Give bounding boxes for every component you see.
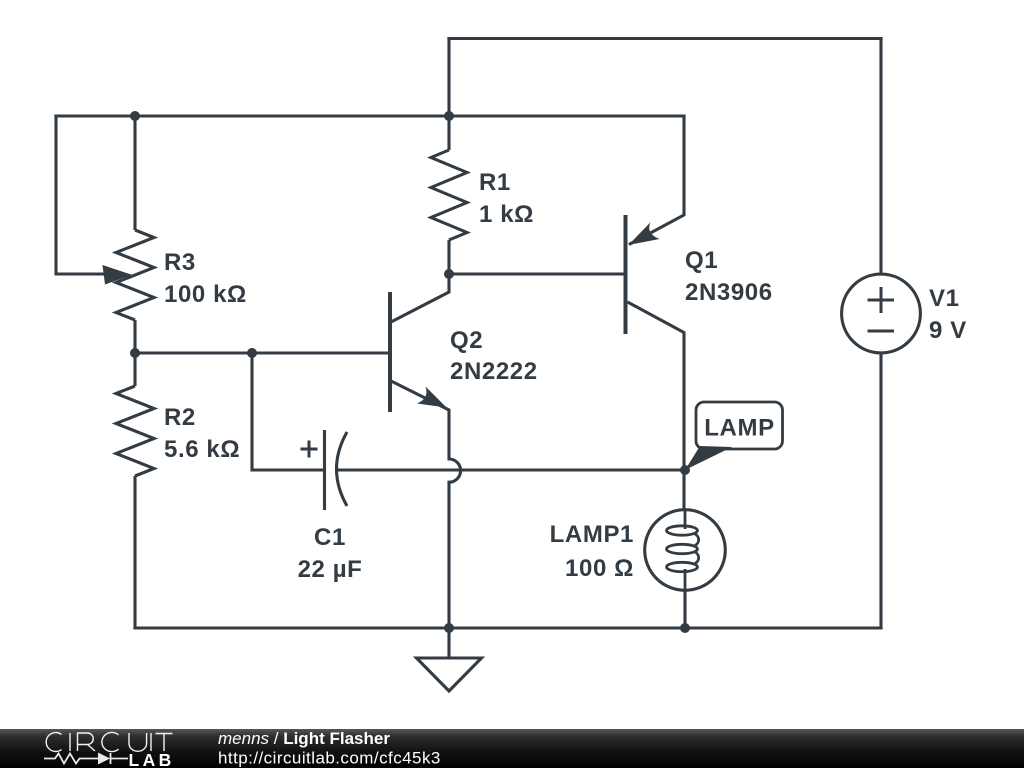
transistor Q1 emitter arrow <box>629 222 660 245</box>
junction node R1 bottom / Q1 base <box>444 269 454 279</box>
ground triangle <box>417 658 482 691</box>
svg-text:100 Ω: 100 Ω <box>565 555 634 582</box>
junction node R1 top <box>444 111 454 121</box>
wire top-left drop <box>447 37 450 116</box>
transistor Q2 emitter with hop over cap wire <box>391 381 461 628</box>
lamp LAMP1 coil <box>684 510 687 529</box>
junction node R3 top <box>130 111 140 121</box>
wire C1 to lamp node <box>338 468 685 471</box>
wire base rail <box>135 351 388 354</box>
wire R3 bottom lead <box>133 320 136 353</box>
transistor Q1 bar <box>624 215 628 334</box>
wire R1 top lead <box>447 116 450 150</box>
svg-text:C1: C1 <box>314 524 346 551</box>
svg-text:9 V: 9 V <box>929 317 967 344</box>
wire right drop to V1 <box>879 37 882 275</box>
svg-text:R1: R1 <box>479 169 511 196</box>
svg-text:Q2: Q2 <box>450 327 483 354</box>
voltage source V1 circle <box>842 274 921 353</box>
net flag LAMP box <box>696 402 783 449</box>
svg-text:Q1: Q1 <box>685 247 718 274</box>
resistor R1 <box>431 150 467 240</box>
wire Q1 base rail <box>449 272 624 275</box>
junction node C1 branch <box>247 348 257 358</box>
wire R2 bottom lead <box>133 476 136 630</box>
wire bottom rail <box>133 626 882 629</box>
wire lamp bottom lead <box>683 590 686 628</box>
ground stem <box>447 628 450 658</box>
capacitor C1 plus sign <box>301 441 318 458</box>
svg-text:2N2222: 2N2222 <box>450 358 538 385</box>
transistor Q1 collector <box>628 302 685 510</box>
wire R1 bottom lead <box>447 240 450 274</box>
transistor Q2 emitter arrow <box>417 387 447 408</box>
logo CIRCUIT text <box>46 732 172 751</box>
capacitor C1 left plate <box>323 430 326 510</box>
junction node R3 bottom <box>130 348 140 358</box>
wire top rail <box>447 37 882 40</box>
transistor Q2 collector <box>391 274 449 322</box>
wire left loop to wiper <box>56 115 106 275</box>
svg-text:LAMP: LAMP <box>704 415 774 442</box>
junction node lamp bottom <box>680 623 690 633</box>
wire C1 left branch <box>252 353 324 470</box>
svg-text:LAB: LAB <box>129 750 175 768</box>
junction node ground <box>444 623 454 633</box>
svg-text:1 kΩ: 1 kΩ <box>479 201 534 228</box>
wire R3 top lead <box>133 116 136 230</box>
svg-text:22 µF: 22 µF <box>298 556 363 583</box>
resistor R3 <box>116 230 154 320</box>
wire upper rail <box>54 114 685 117</box>
wire V1 to bottom rail <box>879 353 882 630</box>
R3 wiper arrow <box>103 265 133 285</box>
logo resistor-diode squiggle <box>44 753 128 765</box>
svg-text:menns / Light Flasher: menns / Light Flasher <box>218 729 390 748</box>
svg-text:R3: R3 <box>164 249 196 276</box>
lamp LAMP1 circle <box>645 510 726 591</box>
svg-text:LAMP1: LAMP1 <box>550 521 634 548</box>
svg-text:2N3906: 2N3906 <box>685 279 773 306</box>
V1 minus sign <box>868 330 895 333</box>
svg-text:R2: R2 <box>164 404 196 431</box>
footer bar <box>0 729 1024 768</box>
wire R2 top lead <box>133 353 136 386</box>
svg-text:http://circuitlab.com/cfc45k3: http://circuitlab.com/cfc45k3 <box>218 749 441 768</box>
svg-text:100 kΩ: 100 kΩ <box>164 281 247 308</box>
capacitor C1 right plate <box>337 432 348 506</box>
transistor Q2 bar <box>388 292 392 412</box>
wire Q2 base lead <box>388 351 390 354</box>
V1 plus sign <box>868 287 895 313</box>
svg-text:V1: V1 <box>929 285 960 312</box>
resistor R2 <box>116 386 154 476</box>
net flag LAMP tail <box>685 446 732 470</box>
transistor Q1 emitter <box>629 115 684 245</box>
svg-text:5.6 kΩ: 5.6 kΩ <box>164 436 240 463</box>
junction node LAMP net <box>680 465 690 475</box>
